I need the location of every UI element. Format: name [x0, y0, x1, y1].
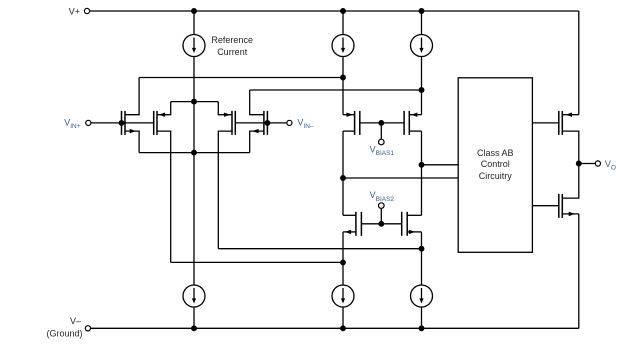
node: Q3 drain line joins right leg — [419, 246, 424, 251]
svg-text:Current: Current — [217, 47, 248, 57]
wire: Q4 drain line to right cascode leg — [250, 89, 422, 91]
node: left cascode output node to class AB box — [341, 176, 346, 181]
transistor Q6 (upper-right cascode) — [381, 111, 421, 135]
wire: VBIAS2 stub — [380, 208, 382, 223]
node: top rail junction at left cascode leg — [341, 9, 346, 14]
transistor Q7 (lower-left cascode) — [343, 212, 381, 236]
transistor Q5 (upper-left cascode) — [343, 111, 381, 135]
wire: left cascode leg Q5 drain down to Q7 lower-cascode drain — [342, 131, 344, 215]
terminal V+ — [84, 8, 89, 13]
node: VBIAS2 gate junction — [379, 222, 384, 227]
node: Q1 drain joins left cascode leg — [341, 75, 346, 80]
transistor Q4 (outer right input) — [250, 90, 268, 153]
wire: I5 to bottom rail — [342, 307, 344, 328]
wire: top rail to reference current source I1 — [193, 11, 195, 35]
current source I1 (reference current) — [183, 35, 205, 57]
wire: I4 to bottom rail — [193, 307, 195, 328]
wire: VBIAS1 stub — [380, 123, 382, 139]
wire: VIN- gate line to Q3 and Q4 gates — [235, 122, 286, 124]
svg-text:(Ground): (Ground) — [46, 329, 82, 339]
node: upper tail junction — [192, 99, 197, 104]
node: bottom rail junction at I5 — [341, 326, 346, 331]
wire: Q8 source down to current source I6 — [421, 232, 423, 285]
wire: class AB box to Q9 gate — [532, 122, 558, 124]
node: top rail junction at right cascode leg — [419, 9, 424, 14]
wire: bottom V- rail — [91, 327, 579, 329]
svg-text:Circuitry: Circuitry — [479, 171, 512, 181]
wire: lower tail down to current source I4 — [193, 153, 195, 285]
transistor Q8 (lower-right cascode) — [381, 212, 421, 236]
current source I3 — [411, 35, 433, 57]
wire: right vertical from top rail to Q7 drain — [578, 11, 580, 115]
terminal VIN- — [287, 120, 292, 125]
wire: VIN+ gate line to Q1 and Q2 gates — [91, 122, 154, 124]
wire: left cascode node into class AB box — [343, 177, 458, 179]
wire: Q1 drain line to left cascode leg — [139, 77, 343, 79]
current source I2 — [332, 35, 354, 57]
wire: Q7 source down to current source I5 — [342, 232, 344, 285]
wire: I1 to input tail node, down between input pairs to lower tail line — [193, 57, 195, 153]
terminal VIN+ — [86, 120, 91, 125]
transistor Q10 (lower output) — [559, 164, 579, 218]
transistor Q9 (upper output) — [559, 111, 579, 164]
wire: right cascode node into class AB box — [422, 164, 459, 166]
wire: Q2 drain line — [171, 261, 343, 263]
current source I5 (bottom middle) — [332, 285, 354, 307]
node: lower tail junction to I4 — [192, 150, 197, 155]
node: Q4 drain joins right cascode leg — [419, 88, 424, 93]
svg-text:V–: V– — [70, 316, 81, 326]
svg-text:V+: V+ — [69, 6, 80, 16]
wire: I6 to bottom rail — [421, 307, 423, 328]
wire: class AB box to Q10 gate — [532, 205, 558, 207]
current source I4 (bottom left) — [183, 285, 205, 307]
wire: top rail to current source I3 — [421, 11, 423, 35]
node: bottom rail junction at I4 — [192, 326, 197, 331]
wire: upper tail line joining Q2 and Q3 sources — [171, 101, 219, 103]
svg-text:Reference: Reference — [211, 35, 253, 45]
wire: top rail to current source I2 — [342, 11, 344, 35]
node: top rail junction at reference current source — [192, 9, 197, 14]
node: VBIAS1 gate junction — [379, 121, 384, 126]
node: right cascode output node to class AB box — [419, 163, 424, 168]
wire: V+ top supply rail — [90, 10, 579, 12]
terminal V- (ground) — [85, 326, 90, 331]
wire: lower tail line joining Q1 and Q4 sources — [139, 152, 250, 154]
transistor Q1 (outer left input) — [122, 78, 140, 153]
wire: I3 down to upper-right cascode Q6 source — [421, 57, 423, 115]
transistor Q3 (inner right input) — [218, 102, 235, 249]
wire: right vertical from Q8 source to bottom rail — [578, 214, 580, 328]
wire: Q3 drain line (crosses left leg without junction) — [218, 248, 421, 250]
node: output node VO — [577, 161, 582, 166]
block U1: Class AB Control Circuitry box — [458, 78, 532, 253]
wire: output node to VO terminal — [579, 163, 596, 165]
wire: I2 down to upper-left cascode Q5 source — [342, 57, 344, 115]
terminal VBIAS1 — [379, 139, 385, 145]
node: bottom rail junction at I6 — [419, 326, 424, 331]
current source I6 (bottom right) — [411, 285, 433, 307]
transistor Q2 (inner left input) — [154, 102, 171, 263]
terminal VO — [595, 161, 600, 166]
wire: right cascode leg Q6 drain down to Q8 lower-cascode drain — [421, 131, 423, 215]
svg-text:Control: Control — [481, 159, 510, 169]
node: junction on Q1 gate bar — [119, 121, 124, 126]
svg-text:Class AB: Class AB — [477, 148, 514, 158]
node: junction on Q4 gate bar — [265, 121, 270, 126]
node: Q2 drain line joins left leg — [341, 260, 346, 265]
terminal VBIAS2 — [379, 203, 385, 209]
